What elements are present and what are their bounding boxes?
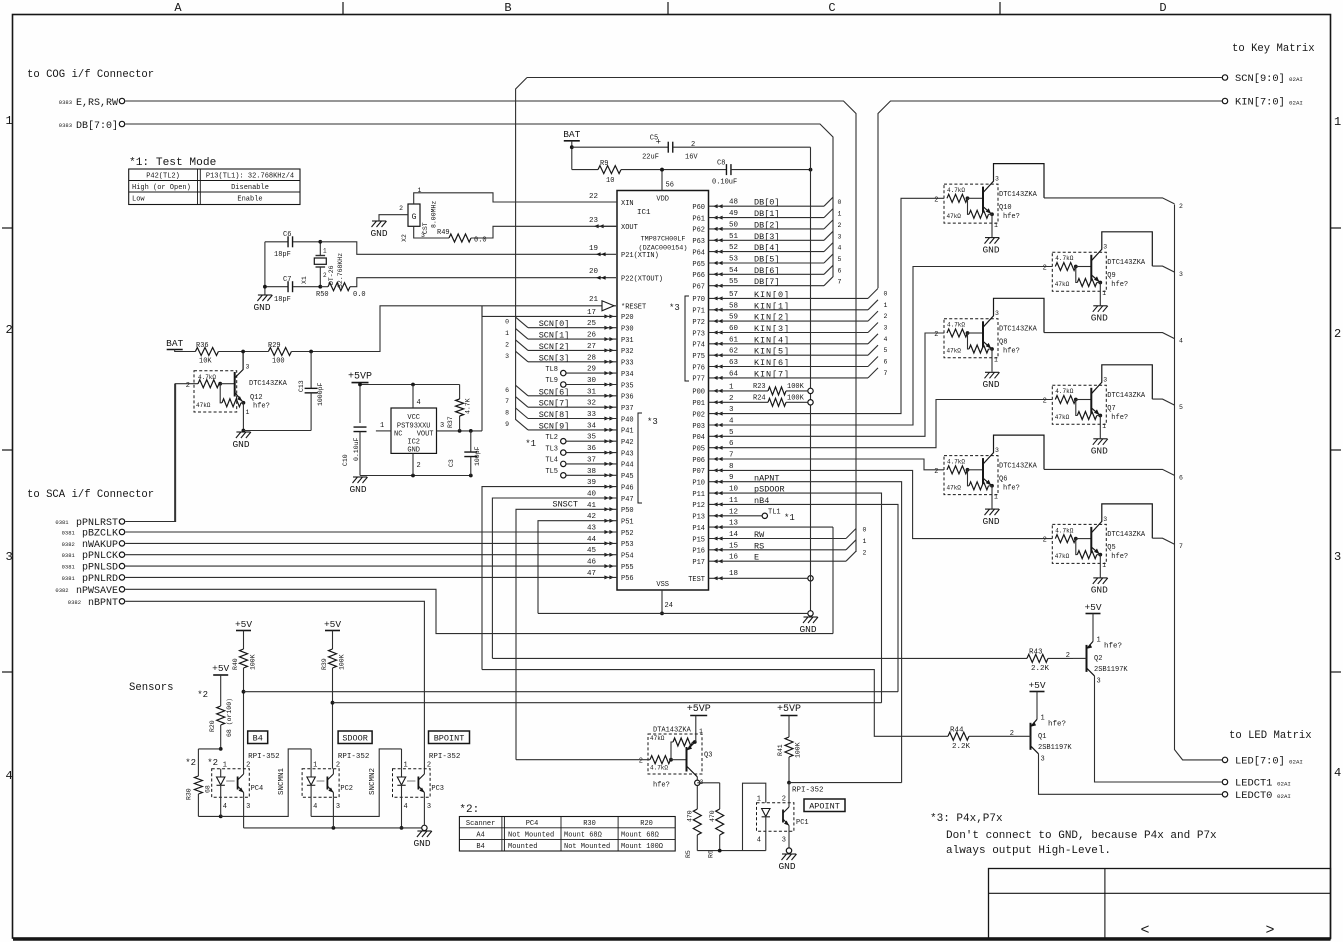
svg-text:48: 48 [729, 199, 738, 207]
svg-text:8: 8 [729, 463, 734, 471]
svg-text:1: 1 [699, 728, 703, 735]
wire R49 to XOUT [471, 226, 616, 238]
svg-text:Q8: Q8 [999, 339, 1007, 347]
svg-text:GND: GND [349, 484, 366, 495]
svg-text:*1: *1 [525, 439, 536, 449]
svg-text:4: 4 [1334, 766, 1341, 780]
svg-text:B4: B4 [476, 843, 484, 851]
svg-text:hfe?: hfe? [1111, 553, 1128, 561]
svg-text:TL5: TL5 [545, 468, 558, 476]
svg-text:C: C [828, 1, 835, 15]
svg-text:DTC143ZKA: DTC143ZKA [1107, 259, 1146, 267]
svg-text:DTC143ZKA: DTC143ZKA [1107, 531, 1146, 539]
resistor R30 68 [198, 748, 220, 750]
svg-text:1: 1 [1102, 423, 1106, 430]
svg-text:D: D [1159, 1, 1166, 15]
wire BAT node [175, 350, 196, 352]
capacitor C7 18pF [265, 286, 288, 288]
svg-text:+5V: +5V [324, 619, 341, 630]
transistor Q10 DTC143ZKA [944, 184, 998, 223]
svg-text:3: 3 [336, 803, 340, 811]
svg-text:hfe?: hfe? [253, 403, 270, 411]
svg-text:44: 44 [587, 536, 597, 544]
svg-text:2.2K: 2.2K [952, 743, 971, 751]
wire C6/C7 left join [264, 242, 266, 295]
svg-text:0: 0 [505, 319, 509, 326]
svg-text:KIN[7:0]: KIN[7:0] [1235, 97, 1285, 109]
resistor R23 100K [709, 390, 769, 392]
svg-text:R36: R36 [196, 342, 209, 350]
svg-text:SCN[6]: SCN[6] [539, 387, 570, 397]
resistor R40 100K [243, 631, 245, 650]
svg-text:1: 1 [1041, 714, 1045, 722]
svg-text:P56: P56 [621, 575, 634, 583]
svg-text:GND: GND [413, 838, 430, 849]
wire SCN[3] entry [516, 351, 528, 362]
wire pPNLCK to P54 [125, 554, 617, 556]
resistor R50 0.0 [320, 286, 328, 288]
wire SCN[7] entry [516, 397, 528, 408]
svg-text:R20: R20 [640, 820, 653, 828]
svg-text:*2:: *2: [459, 804, 479, 816]
svg-text:pPNLCK: pPNLCK [82, 551, 118, 562]
svg-text:3: 3 [1103, 244, 1107, 251]
svg-text:Sensors: Sensors [129, 682, 174, 694]
svg-text:0.0: 0.0 [353, 291, 366, 299]
svg-text:2: 2 [639, 758, 643, 766]
wire X1 top to P21(XTIN) [320, 242, 616, 255]
svg-text:5: 5 [729, 429, 734, 437]
svg-text:0381: 0381 [62, 564, 76, 571]
svg-text:nPWSAVE: nPWSAVE [76, 586, 118, 597]
wire sensor gnd bus [243, 797, 245, 828]
svg-text:16: 16 [729, 554, 739, 562]
svg-text:0381: 0381 [55, 519, 69, 526]
svg-text:37: 37 [587, 456, 596, 464]
ground (crystal) [257, 295, 272, 301]
svg-text:7: 7 [884, 370, 888, 377]
svg-text:4.7kΩ: 4.7kΩ [650, 765, 668, 772]
svg-text:7: 7 [838, 279, 842, 286]
svg-text:2: 2 [1043, 265, 1047, 273]
svg-text:P02: P02 [692, 411, 705, 419]
wire Q9 collector to LED bus [1152, 266, 1174, 272]
svg-text:47: 47 [587, 570, 596, 578]
svg-text:P30: P30 [621, 326, 634, 334]
capacitor C10 0.10uF [354, 426, 367, 428]
svg-text:3: 3 [427, 803, 431, 811]
svg-text:3: 3 [995, 176, 999, 183]
svg-text:*3: *3 [647, 417, 658, 427]
wire R36-R29 [218, 351, 268, 353]
svg-text:14: 14 [729, 531, 739, 539]
svg-text:*3: P4x,P7x: *3: P4x,P7x [930, 813, 1003, 825]
ground (Q6) [985, 509, 1000, 515]
svg-text:12: 12 [729, 508, 738, 516]
svg-text:LEDCT0: LEDCT0 [1235, 790, 1272, 802]
wire pPNLSD to P55 [125, 565, 617, 567]
svg-text:100K: 100K [339, 654, 346, 670]
wire DB[3] [709, 239, 825, 241]
svg-text:DTC143ZKA: DTC143ZKA [999, 326, 1038, 334]
svg-text:G: G [412, 213, 417, 222]
svg-text:Mount 100Ω: Mount 100Ω [621, 843, 663, 851]
ground (X2) [372, 221, 387, 227]
capacitor C6 18pF [265, 241, 288, 243]
wire BAT to C5 [571, 141, 573, 170]
svg-text:0: 0 [863, 527, 867, 534]
wire DB[7:0] bus to right [125, 124, 833, 277]
svg-text:6: 6 [838, 267, 842, 274]
wire SCN[1] entry [516, 329, 528, 340]
svg-text:4.7kΩ: 4.7kΩ [947, 187, 965, 194]
wire KIN[6] [709, 366, 869, 368]
svg-text:P74: P74 [692, 342, 705, 350]
svg-text:Mount 68Ω: Mount 68Ω [564, 832, 602, 840]
svg-text:pBZCLK: pBZCLK [82, 529, 118, 540]
svg-text:Don't connect to GND, because: Don't connect to GND, because P4x and P7… [946, 830, 1217, 842]
svg-text:470: 470 [709, 810, 716, 822]
svg-text:XOUT: XOUT [621, 224, 638, 232]
svg-text:2: 2 [934, 331, 938, 339]
wire Q10 base feed from P02 [709, 198, 945, 413]
wire VDD pin 56 [661, 170, 663, 191]
svg-text:2: 2 [838, 222, 842, 229]
svg-text:R24: R24 [753, 395, 766, 403]
wire nBPNT to PC3 [125, 601, 424, 768]
svg-text:B4: B4 [253, 734, 263, 744]
optocoupler PC2 RPI-352 [302, 769, 339, 798]
svg-text:4.7K: 4.7K [465, 398, 472, 414]
zone ticks left/right [2, 227, 13, 229]
svg-text:25: 25 [587, 320, 597, 328]
svg-text:0381: 0381 [62, 575, 76, 582]
svg-text:P05: P05 [692, 446, 705, 454]
svg-text:R30: R30 [186, 788, 193, 800]
svg-text:GND: GND [982, 244, 999, 255]
wire Q6 emitter to gnd [991, 486, 993, 509]
node LEDCT0 connector [1222, 792, 1227, 797]
svg-text:P37: P37 [621, 405, 634, 413]
optocoupler PC3 RPI-352 [393, 769, 431, 798]
RESET open arrow [602, 301, 614, 311]
svg-text:15: 15 [729, 542, 739, 550]
svg-text:3: 3 [995, 447, 999, 454]
transistor Q12 DTC143ZKA [194, 371, 237, 412]
svg-text:R49: R49 [437, 229, 450, 237]
wire P46 riser [482, 487, 617, 670]
svg-text:TL1: TL1 [768, 509, 781, 517]
svg-text:P35: P35 [621, 382, 634, 390]
svg-text:P12: P12 [692, 502, 705, 510]
svg-text:100K: 100K [787, 395, 805, 403]
svg-text:47kΩ: 47kΩ [1055, 414, 1070, 421]
svg-text:R9: R9 [600, 160, 608, 168]
wire R9 to C8 [621, 169, 726, 171]
bus LED spine [1175, 205, 1223, 760]
svg-text:R41: R41 [777, 744, 784, 756]
transistor Q5 DTC143ZKA [1052, 524, 1106, 563]
svg-text:GND: GND [982, 516, 999, 527]
svg-text:SCN[8]: SCN[8] [539, 410, 570, 420]
svg-text:3: 3 [246, 364, 250, 371]
svg-text:470: 470 [687, 810, 694, 822]
svg-text:P65: P65 [692, 261, 705, 269]
svg-text:+5VP: +5VP [777, 704, 801, 715]
svg-text:GND: GND [982, 379, 999, 390]
resistor R6 470 [697, 782, 719, 784]
svg-text:P75: P75 [692, 353, 705, 361]
svg-text:SNSCT: SNSCT [552, 500, 578, 510]
svg-text:P66: P66 [692, 272, 705, 280]
svg-text:*2: *2 [185, 758, 196, 768]
svg-text:Q2: Q2 [1094, 655, 1102, 663]
svg-text:0.10uF: 0.10uF [353, 437, 360, 461]
ground (Q10) [985, 238, 1000, 244]
wire PC3 pin4 [401, 797, 403, 828]
svg-text:*3: *3 [669, 303, 680, 313]
svg-text:31: 31 [587, 388, 597, 396]
resistor R44 2.2K [482, 670, 948, 737]
svg-text:RPI-352: RPI-352 [338, 753, 370, 761]
svg-text:7: 7 [505, 398, 509, 405]
transistor Q8 DTC143ZKA [944, 319, 998, 358]
svg-text:0382: 0382 [62, 541, 75, 548]
svg-text:54: 54 [729, 267, 739, 275]
svg-text:KIN[7]: KIN[7] [754, 369, 790, 379]
wire R39 to PC2 pin2 [332, 668, 334, 769]
svg-text:47kΩ: 47kΩ [1055, 281, 1070, 288]
wire top gnd return [810, 147, 812, 613]
svg-text:+5VP: +5VP [348, 372, 372, 383]
svg-text:P55: P55 [621, 564, 634, 572]
svg-text:P52: P52 [621, 530, 634, 538]
svg-text:KIN[0]: KIN[0] [754, 290, 790, 300]
svg-text:P54: P54 [621, 553, 634, 561]
svg-text:02AI: 02AI [1289, 100, 1303, 107]
svg-text:0381: 0381 [62, 552, 76, 559]
crystal X1 DT-26 32.768KHz [319, 242, 321, 256]
svg-text:Not Mounted: Not Mounted [508, 832, 554, 840]
svg-text:C8: C8 [717, 160, 725, 168]
svg-text:R5: R5 [685, 850, 692, 858]
wire PC2 pin4 [310, 797, 312, 816]
svg-text:68: 68 [205, 785, 212, 793]
wire KIN[3] [709, 332, 869, 334]
label SDOOR box [338, 731, 372, 744]
svg-text:1: 1 [1334, 115, 1341, 129]
transistor Q2 2SB1197K [1092, 614, 1094, 642]
svg-text:R20: R20 [209, 720, 216, 732]
svg-text:PC3: PC3 [431, 785, 444, 793]
svg-text:P33: P33 [621, 360, 634, 368]
svg-text:P31: P31 [621, 337, 634, 345]
svg-text:hfe?: hfe? [1003, 348, 1020, 356]
svg-text:+5V: +5V [1028, 680, 1045, 691]
svg-text:+5V: +5V [235, 619, 252, 630]
svg-text:P50: P50 [621, 507, 634, 515]
svg-text:pPNLRD: pPNLRD [82, 574, 118, 585]
svg-text:36: 36 [587, 445, 597, 453]
svg-text:always output High-Level.: always output High-Level. [946, 845, 1111, 857]
svg-text:TL4: TL4 [545, 457, 558, 465]
wire VSS rail [538, 612, 807, 614]
svg-text:1: 1 [1102, 562, 1106, 569]
svg-text:18pF: 18pF [274, 251, 291, 259]
svg-text:BPOINT: BPOINT [434, 734, 465, 744]
optocoupler PC4 RPI-352 [212, 769, 250, 798]
svg-text:20: 20 [589, 268, 599, 276]
wire Q1 collector to LEDCT0 [1039, 754, 1222, 795]
svg-text:21: 21 [589, 296, 599, 304]
svg-text:KIN[3]: KIN[3] [754, 324, 790, 334]
svg-text:2.2K: 2.2K [1031, 665, 1050, 673]
svg-text:DB[0]: DB[0] [754, 198, 780, 208]
svg-text:Low: Low [132, 196, 145, 204]
svg-text:3: 3 [6, 550, 13, 564]
wire Q9 base feed from P03 [709, 267, 1053, 426]
svg-text:47kΩ: 47kΩ [947, 484, 962, 491]
label B4 box [248, 731, 268, 744]
svg-text:TEST: TEST [688, 576, 705, 584]
svg-text:GND: GND [1091, 585, 1108, 596]
svg-text:LEDCT1: LEDCT1 [1235, 778, 1272, 790]
IC U1 TMP87CH00LF box [617, 191, 709, 591]
svg-text:2: 2 [934, 196, 938, 204]
svg-text:X1: X1 [301, 276, 308, 284]
svg-text:Q9: Q9 [1107, 272, 1115, 280]
svg-text:0381: 0381 [62, 530, 76, 537]
svg-text:4: 4 [223, 803, 227, 811]
svg-text:1: 1 [505, 330, 509, 337]
svg-text:1: 1 [729, 383, 734, 391]
svg-text:P21(XTIN): P21(XTIN) [621, 252, 659, 260]
svg-text:3: 3 [838, 233, 842, 240]
svg-text:GND: GND [370, 228, 387, 239]
wire GND rail under IC2 [360, 475, 471, 477]
svg-text:32: 32 [587, 400, 596, 408]
wire SCN[6] entry [516, 385, 528, 396]
node LED[7:0] connector [1222, 757, 1227, 762]
svg-text:2: 2 [863, 550, 867, 557]
node KIN[7:0] connector [1222, 98, 1227, 103]
svg-text:SCN[0]: SCN[0] [539, 319, 570, 329]
wire R41 node to nAPNT riser [787, 781, 791, 785]
svg-text:P17: P17 [692, 559, 705, 567]
svg-text:+5V: +5V [212, 663, 229, 674]
svg-text:Q3: Q3 [704, 752, 712, 760]
resistor R20 68 [220, 675, 222, 706]
svg-text:4.7kΩ: 4.7kΩ [947, 322, 965, 329]
resistor R49 0.0 [414, 226, 449, 238]
svg-text:4: 4 [404, 803, 408, 811]
svg-text:2: 2 [691, 141, 695, 149]
svg-text:4: 4 [757, 837, 761, 845]
svg-text:hfe?: hfe? [653, 782, 670, 790]
svg-text:P51: P51 [621, 519, 634, 527]
wire P14 to nPWSAVE riser [709, 526, 834, 528]
svg-text:42: 42 [587, 513, 596, 521]
svg-text:Not Mounted: Not Mounted [564, 843, 610, 851]
svg-text:32.768KHz: 32.768KHz [337, 253, 344, 288]
svg-text:RPI-352: RPI-352 [429, 753, 461, 761]
svg-text:KIN[5]: KIN[5] [754, 347, 790, 357]
wire R40 to PC4 pin2 [243, 668, 245, 769]
wire sensor SDOOR line [333, 702, 882, 704]
svg-text:SCN[9:0]: SCN[9:0] [1235, 73, 1285, 85]
svg-text:0: 0 [884, 290, 888, 297]
svg-text:R44: R44 [950, 727, 964, 735]
svg-text:C10: C10 [342, 454, 349, 466]
resistor R9 10 [572, 169, 598, 171]
svg-text:100pF: 100pF [474, 446, 481, 466]
svg-text:0383: 0383 [59, 99, 72, 106]
svg-text:1: 1 [884, 302, 888, 309]
svg-text:GND: GND [253, 302, 270, 313]
svg-text:R29: R29 [268, 342, 281, 350]
wire pPNLRD to P56 [125, 576, 617, 578]
wire X2 pin2 to GND [379, 215, 408, 221]
svg-text:TL2: TL2 [545, 434, 558, 442]
svg-text:4: 4 [1179, 338, 1183, 345]
svg-text:2: 2 [934, 468, 938, 476]
svg-text:BAT: BAT [166, 338, 183, 349]
svg-text:TMP87CH00LF: TMP87CH00LF [641, 236, 686, 244]
svg-text:10: 10 [729, 486, 739, 494]
svg-text:PC2: PC2 [340, 785, 353, 793]
svg-text:2: 2 [884, 313, 888, 320]
wire SCN[2] entry [516, 340, 528, 351]
svg-text:59: 59 [729, 314, 738, 322]
svg-text:3: 3 [884, 325, 888, 332]
svg-text:2: 2 [1179, 203, 1183, 210]
wire DB[7] [709, 285, 825, 287]
svg-text:Enable: Enable [237, 196, 262, 204]
wire KIN[5] [709, 354, 869, 356]
svg-text:P16: P16 [692, 548, 705, 556]
svg-text:4: 4 [884, 336, 888, 343]
svg-text:2: 2 [399, 205, 403, 212]
svg-text:P46: P46 [621, 484, 634, 492]
svg-text:hfe?: hfe? [1003, 484, 1020, 492]
svg-text:*2: *2 [207, 758, 218, 768]
ground (IC1 gnd node) [808, 611, 813, 616]
svg-text:8: 8 [505, 410, 509, 417]
svg-text:*1: *1 [784, 513, 795, 523]
svg-text:62: 62 [729, 348, 738, 356]
svg-text:7: 7 [1179, 543, 1183, 550]
svg-text:DTC143ZKA: DTC143ZKA [999, 191, 1038, 199]
svg-text:2: 2 [729, 395, 734, 403]
svg-text:APOINT: APOINT [809, 802, 840, 812]
wire Q10 emitter to gnd [991, 214, 993, 237]
svg-text:C3: C3 [448, 459, 455, 467]
svg-text:R50: R50 [316, 291, 329, 299]
svg-text:P20: P20 [621, 314, 634, 322]
svg-text:Mount 68Ω: Mount 68Ω [621, 832, 659, 840]
svg-text:DTC143ZKA: DTC143ZKA [1107, 392, 1146, 400]
svg-text:DTC143ZKA: DTC143ZKA [249, 380, 288, 388]
svg-text:4: 4 [729, 418, 734, 426]
wire SCN[9] entry [516, 419, 528, 430]
svg-text:GND: GND [232, 439, 249, 450]
svg-text:PC4: PC4 [251, 785, 264, 793]
svg-text:7: 7 [729, 452, 734, 460]
wire DB[2] [709, 228, 825, 230]
svg-text:RPI-352: RPI-352 [248, 753, 280, 761]
wire Q5 emitter to gnd [1099, 555, 1101, 578]
wire KIN[0] [709, 297, 869, 299]
